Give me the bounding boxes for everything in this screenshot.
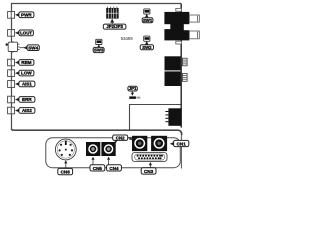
- wire CN5 leader: [91, 157, 94, 165]
- switch SW2: [144, 36, 150, 41]
- svg-text:LOW: LOW: [21, 71, 32, 76]
- svg-text:JP1: JP1: [129, 86, 137, 91]
- svg-text:CN5: CN5: [93, 166, 103, 171]
- svg-text:SW2: SW2: [142, 45, 152, 50]
- tag CN4: [107, 165, 122, 171]
- jack A barrel: [182, 58, 187, 66]
- hanging connector CN1 (below card edge): [165, 108, 181, 126]
- wire CN6 leader: [64, 160, 67, 168]
- svg-text:REM: REM: [21, 60, 31, 65]
- connector REM box: [8, 59, 15, 66]
- connector LOW box: [8, 70, 15, 77]
- tag CN6: [58, 168, 73, 174]
- tag SW4: [20, 45, 40, 51]
- switch SW3: [96, 39, 102, 44]
- svg-text:CN2: CN2: [116, 136, 125, 141]
- svg-text:SW3: SW3: [94, 48, 104, 53]
- phone jack CN2 (panel, large): [132, 136, 147, 151]
- svg-text:PWR: PWR: [21, 12, 32, 17]
- RCA jack pair (top of bracket): [164, 12, 190, 41]
- svg-text:ERR: ERR: [22, 97, 32, 102]
- RCA barrel 2: [189, 31, 199, 39]
- connector AIS1 box: [8, 81, 15, 88]
- tag CN2: [113, 135, 133, 143]
- tag LOUT: [15, 30, 33, 36]
- RCA barrel 1: [189, 15, 199, 22]
- wire CN3 leader: [149, 162, 152, 168]
- card outline (PCB): [12, 4, 182, 136]
- connector AIS2 box: [8, 107, 15, 114]
- connector SW4 box (3-pin header with pin-1 dot): [6, 41, 20, 53]
- phone jack A (bracket): [165, 56, 181, 70]
- connector PWR box: [8, 12, 15, 19]
- tag CN1: [170, 140, 189, 146]
- switch SW1: [144, 9, 150, 14]
- tag LOW: [15, 70, 34, 76]
- wire CN4 leader: [107, 157, 110, 165]
- svg-text:AIS2: AIS2: [22, 108, 32, 113]
- jack B barrel: [182, 73, 187, 81]
- tag JP1: [128, 86, 137, 96]
- bracket line (right edge): [180, 4, 182, 128]
- tag SW3: [93, 44, 104, 53]
- svg-text:AIS1: AIS1: [22, 82, 32, 87]
- tag REM: [15, 60, 34, 66]
- tag SW2: [140, 41, 153, 50]
- svg-text:CN6: CN6: [61, 170, 71, 175]
- svg-text:SW1: SW1: [143, 18, 153, 23]
- phone jack CN5 (panel): [86, 142, 100, 156]
- jumper block JP2 (pin grid): [106, 7, 118, 19]
- tag JP2/JP3: [103, 19, 126, 29]
- standoff (below RCA pair): [176, 41, 182, 44]
- phone jack CN1 (panel, large): [151, 136, 167, 151]
- svg-text:SW4: SW4: [28, 45, 38, 50]
- connector LOUT box: [8, 30, 15, 37]
- svg-text:CN3: CN3: [144, 169, 154, 174]
- svg-text:CN4: CN4: [109, 166, 119, 171]
- tag CN5: [90, 165, 105, 171]
- tag PWR: [15, 12, 34, 18]
- tag AIS1: [15, 81, 35, 87]
- standoff (top, on bracket): [176, 8, 182, 11]
- phone jack CN4 (panel): [101, 142, 115, 156]
- bottom bracket panel: [46, 138, 181, 168]
- tag SW1: [142, 14, 153, 23]
- tag AIS2: [15, 108, 35, 114]
- jumper JP1: [129, 96, 140, 99]
- svg-text:53459: 53459: [121, 36, 134, 41]
- wire CN1 leader: [180, 135, 182, 169]
- tag CN3: [141, 168, 156, 174]
- tag ERR: [15, 97, 35, 103]
- game port CN3 (D-sub 15): [132, 153, 167, 162]
- svg-text:CN1: CN1: [177, 141, 187, 146]
- DIN connector CN6 (face): [55, 139, 76, 160]
- svg-text:LOUT: LOUT: [20, 31, 32, 36]
- connector ERR box: [8, 96, 15, 103]
- phone jack B (bracket): [165, 71, 181, 86]
- svg-text:JP2/JP3: JP2/JP3: [106, 24, 123, 29]
